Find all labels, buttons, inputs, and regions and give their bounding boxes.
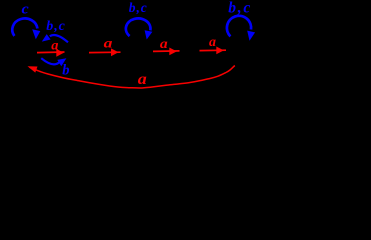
svg-text:b,c: b,c: [46, 19, 65, 34]
transition a q1 -> q2 (red straight arrow): [37, 49, 65, 57]
self-loop b,c on q3 (blue): [126, 18, 153, 39]
transition arc q2 -> q1 labeled b,c (blue, upper arc): [42, 34, 68, 42]
transition arc q1 -> q2 labeled b (blue, lower arc): [41, 58, 66, 66]
label a for q5->q1 return arc: [138, 71, 147, 88]
label b,c for q5 self-loop: [228, 0, 252, 17]
label b,c for q3 self-loop: [129, 0, 148, 15]
svg-text:a: a: [138, 71, 147, 88]
svg-text:a: a: [104, 37, 113, 52]
transition arc q5 -> q1 labeled a (long red return arc): [28, 66, 235, 89]
state q1 (black circle, invisible on black): [12, 40, 38, 66]
self-loop c on q1 (blue): [12, 18, 40, 39]
label a for q3->q4: [160, 37, 168, 52]
svg-text:a: a: [160, 37, 168, 52]
state q3: [123, 39, 149, 65]
svg-text:a: a: [51, 39, 58, 54]
transition a q3 -> q4 (red straight arrow): [153, 48, 180, 56]
svg-text:b,c: b,c: [129, 0, 148, 15]
transition a q2 -> q3 (red straight arrow): [89, 48, 121, 56]
state q2: [64, 41, 88, 65]
svg-text:b: b: [62, 63, 69, 79]
svg-text:b,c: b,c: [228, 0, 252, 17]
state q4: [179, 39, 204, 64]
label c for q1 self-loop: [22, 1, 30, 17]
self-loop b,c on q5 (blue): [227, 16, 255, 41]
label a for q4->q5: [209, 35, 216, 50]
label b for arc q1->q2: [62, 63, 69, 79]
transition a q4 -> q5 (red straight arrow): [200, 47, 227, 55]
state q5: [231, 38, 257, 64]
label a for q1->q2: [51, 39, 58, 54]
svg-text:c: c: [22, 1, 30, 17]
svg-text:a: a: [209, 35, 216, 50]
label a for q2->q3: [104, 37, 113, 52]
label b,c for arc q2->q1: [46, 19, 65, 34]
